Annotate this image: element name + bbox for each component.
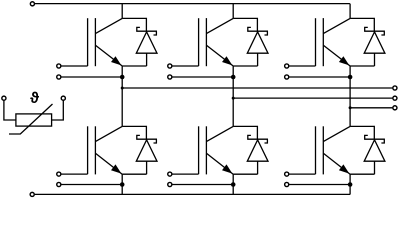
wire: leg2 midpoint vertical bbox=[232, 66, 234, 126]
transistor T2 body bar bbox=[205, 18, 207, 66]
wire: leg3 bottom collector to diode bbox=[350, 126, 374, 139]
transistor T4 emitter diagonal bbox=[96, 153, 123, 174]
transistor T1 emitter diagonal bbox=[96, 45, 123, 66]
terminal: T4 gate bbox=[57, 172, 61, 176]
wire: T2 aux emitter lead bbox=[172, 76, 233, 78]
wire: leg3 bottom emitter run bbox=[350, 173, 374, 175]
wire: phase line V bbox=[233, 97, 392, 99]
node: T5 emitter junction bbox=[231, 182, 236, 187]
diode D5 triangle bbox=[247, 140, 268, 161]
terminal: T3 aux emitter bbox=[285, 75, 289, 79]
NTC slash with foot bbox=[9, 104, 53, 134]
wire: phase line U bbox=[122, 87, 392, 89]
transistor T6 collector diagonal bbox=[324, 126, 351, 141]
node: T6 emitter junction bbox=[348, 182, 353, 187]
wire: diode D4 anode down bbox=[146, 161, 148, 174]
transistor T4 emitter arrow bbox=[111, 164, 121, 173]
wire: DC- bottom rail bbox=[35, 193, 351, 195]
wire: DC+ top rail bbox=[35, 3, 350, 5]
node: leg1 phase junction bbox=[121, 87, 124, 90]
transistor T5 body bar bbox=[205, 126, 207, 174]
node: T3 emitter junction bbox=[348, 75, 353, 80]
resistor R(NTC) body bbox=[16, 114, 52, 126]
node: T4 emitter junction bbox=[120, 182, 125, 187]
DC- terminal (bottom left) bbox=[30, 192, 34, 196]
transistor T5 collector diagonal bbox=[207, 126, 234, 141]
diode D6 triangle bbox=[364, 140, 385, 161]
wire: leg1 top collector to diode bbox=[122, 18, 146, 31]
transistor T1 emitter arrow bbox=[111, 56, 121, 65]
wire: T3 aux emitter lead bbox=[289, 76, 350, 78]
node: leg2 phase junction bbox=[232, 97, 235, 100]
diode D1 triangle bbox=[136, 32, 157, 53]
transistor T4 gate bar bbox=[87, 126, 89, 174]
terminal: T6 gate bbox=[285, 172, 289, 176]
wire: T6 aux emitter lead bbox=[289, 184, 350, 186]
wire: diode D1 anode down bbox=[146, 53, 148, 66]
wire: leg1 bottom collector to diode bbox=[122, 126, 146, 139]
wire: T1 gate lead bbox=[61, 65, 87, 67]
wire: phase line W bbox=[350, 107, 392, 109]
terminal: T1 gate bbox=[57, 64, 61, 68]
terminal: T1 aux emitter bbox=[57, 75, 61, 79]
phase output terminal V bbox=[393, 96, 397, 100]
phase output terminal W bbox=[393, 106, 397, 110]
transistor T3 collector diagonal bbox=[324, 18, 351, 33]
wire: leg1 collector drop from DC+ bbox=[121, 4, 123, 19]
diode D4 (bottom freewheel) cathode bar with hooks bbox=[136, 135, 157, 143]
diode D2 triangle bbox=[247, 32, 268, 53]
wire: leg1 top emitter run bbox=[122, 65, 146, 67]
wire: leg2 bottom emitter run bbox=[233, 173, 257, 175]
transistor T3 emitter arrow bbox=[339, 56, 349, 65]
wire: T6 gate lead bbox=[289, 173, 315, 175]
terminal: T2 gate bbox=[168, 64, 172, 68]
wire: leg3 midpoint vertical bbox=[349, 66, 351, 126]
diode D4 triangle bbox=[136, 140, 157, 161]
transistor T2 gate bar bbox=[198, 18, 200, 66]
transistor T6 emitter arrow bbox=[339, 164, 349, 173]
wire: NTC right lead bbox=[52, 101, 64, 120]
wire: diode D3 anode down bbox=[374, 53, 376, 66]
diode D1 (top freewheel) cathode bar with hooks bbox=[136, 27, 157, 35]
transistor T4 collector diagonal bbox=[96, 126, 123, 141]
wire: leg2 top emitter run bbox=[233, 65, 257, 67]
wire: T4 aux emitter lead bbox=[61, 184, 122, 186]
wire: leg3 collector drop from DC+ bbox=[349, 4, 351, 19]
wire: leg2 emitter to DC- bbox=[232, 174, 234, 194]
diode D2 cathode bar with hooks bbox=[247, 27, 268, 35]
transistor T5 emitter arrow bbox=[222, 164, 232, 173]
wire: leg2 bottom collector to diode bbox=[233, 126, 257, 139]
DC+ terminal (top left) bbox=[30, 2, 34, 6]
transistor T2 emitter arrow bbox=[222, 56, 232, 65]
wire: diode D2 anode down bbox=[257, 53, 259, 66]
wire: leg1 emitter to DC- bbox=[121, 174, 123, 194]
transistor T6 gate bar bbox=[315, 126, 317, 174]
terminal: T2 aux emitter bbox=[168, 75, 172, 79]
wire: leg3 top collector to diode bbox=[350, 18, 374, 31]
diode D3 cathode bar with hooks bbox=[364, 27, 385, 35]
node: T2 emitter junction bbox=[231, 75, 236, 80]
diode D3 triangle bbox=[364, 32, 385, 53]
transistor T6 body bar bbox=[322, 126, 324, 174]
wire: T4 gate lead bbox=[61, 173, 87, 175]
wire: T2 gate lead bbox=[172, 65, 198, 67]
wire: diode D6 anode down bbox=[374, 161, 376, 174]
label: theta bbox=[30, 92, 39, 103]
transistor T5 emitter diagonal bbox=[207, 153, 234, 174]
wire: T5 aux emitter lead bbox=[172, 184, 233, 186]
transistor T2 collector diagonal bbox=[207, 18, 234, 33]
wire: leg3 top emitter run bbox=[350, 65, 374, 67]
diode D5 cathode bar with hooks bbox=[247, 135, 268, 143]
wire: T3 gate lead bbox=[289, 65, 315, 67]
transistor T4 body bar bbox=[94, 126, 96, 174]
terminal: T6 aux emitter bbox=[285, 182, 289, 186]
transistor T3 gate bar bbox=[315, 18, 317, 66]
terminal: NTC right bbox=[61, 96, 65, 100]
terminal: NTC left bbox=[2, 96, 6, 100]
transistor T1 collector diagonal bbox=[96, 18, 123, 33]
transistor T3 emitter diagonal bbox=[324, 45, 351, 66]
transistor T5 gate bar bbox=[198, 126, 200, 174]
transistor T2 emitter diagonal bbox=[207, 45, 234, 66]
transistor T1 body bar bbox=[94, 18, 96, 66]
node: T1 emitter junction bbox=[120, 75, 125, 80]
terminal: T3 gate bbox=[285, 64, 289, 68]
wire: leg3 emitter to DC- bbox=[349, 174, 351, 194]
wire: leg1 midpoint vertical bbox=[121, 66, 123, 126]
wire: NTC left lead bbox=[4, 101, 16, 120]
terminal: T5 gate bbox=[168, 172, 172, 176]
terminal: T4 aux emitter bbox=[57, 182, 61, 186]
wire: leg2 collector drop from DC+ bbox=[232, 4, 234, 19]
terminal: T5 aux emitter bbox=[168, 182, 172, 186]
transistor T1 gate bar bbox=[87, 18, 89, 66]
diode D6 cathode bar with hooks bbox=[364, 135, 385, 143]
node: leg3 phase junction bbox=[349, 106, 352, 109]
wire: T1 aux emitter lead bbox=[61, 76, 122, 78]
phase output terminal U bbox=[393, 86, 397, 90]
wire: diode D5 anode down bbox=[257, 161, 259, 174]
wire: leg1 bottom emitter run bbox=[122, 173, 146, 175]
transistor T3 body bar bbox=[322, 18, 324, 66]
wire: T5 gate lead bbox=[172, 173, 198, 175]
transistor T6 emitter diagonal bbox=[324, 153, 351, 174]
wire: leg2 top collector to diode bbox=[233, 18, 257, 31]
